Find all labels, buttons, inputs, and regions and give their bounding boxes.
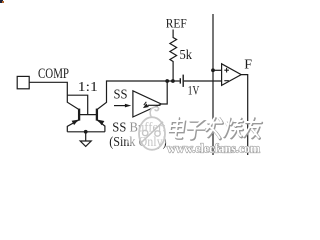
svg-text:1V: 1V: [188, 83, 200, 98]
svg-text:5k: 5k: [180, 48, 193, 63]
svg-text:SS: SS: [114, 88, 128, 103]
svg-text:1:1: 1:1: [78, 80, 98, 95]
svg-text:COMP: COMP: [38, 66, 69, 82]
svg-text:REF: REF: [166, 16, 187, 31]
svg-text:F: F: [244, 58, 252, 73]
svg-text:www.elecfans.com: www.elecfans.com: [167, 141, 261, 155]
